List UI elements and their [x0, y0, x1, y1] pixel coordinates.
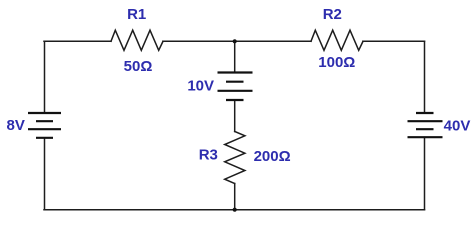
wire left vertical upper: [44, 41, 46, 113]
battery V3 40V long plate: [408, 136, 443, 138]
svg-text:200Ω: 200Ω: [254, 148, 291, 165]
wire middle vertical lower: [234, 184, 236, 210]
resistor R2: [311, 30, 363, 50]
svg-text:R1: R1: [127, 6, 146, 23]
wire top-middle segment: [163, 40, 311, 42]
battery V3 40V short plate: [416, 112, 434, 114]
svg-text:R3: R3: [199, 147, 218, 164]
svg-text:R2: R2: [323, 6, 342, 23]
svg-text:40V: 40V: [444, 118, 471, 135]
battery V1 8V short plate: [36, 120, 53, 122]
junction node top: [233, 39, 237, 43]
resistor R1: [111, 30, 163, 50]
wire middle vertical upper: [234, 41, 236, 72]
wire top-right segment: [363, 40, 425, 42]
svg-text:8V: 8V: [7, 117, 25, 134]
svg-text:10V: 10V: [187, 77, 214, 94]
wire top-left segment: [44, 40, 111, 42]
wire middle between battery and R3: [234, 100, 236, 132]
battery V2 10V long plate: [218, 71, 253, 73]
wire bottom: [44, 209, 425, 211]
battery V3 40V long plate: [408, 120, 443, 122]
svg-text:50Ω: 50Ω: [124, 58, 153, 75]
resistor R3: [225, 132, 245, 184]
wire right vertical upper: [424, 41, 426, 113]
svg-text:100Ω: 100Ω: [318, 54, 355, 71]
battery V2 10V long plate: [218, 90, 253, 92]
battery V2 10V short plate: [226, 81, 244, 83]
battery V1 8V long plate: [28, 128, 61, 130]
wire right vertical lower: [424, 137, 426, 210]
battery V3 40V short plate: [416, 128, 434, 130]
junction node bottom: [233, 208, 237, 212]
battery V1 8V short plate: [36, 137, 53, 139]
wire left vertical lower: [44, 138, 46, 210]
battery V1 8V long plate: [28, 112, 61, 114]
battery V2 10V short plate: [226, 99, 244, 101]
